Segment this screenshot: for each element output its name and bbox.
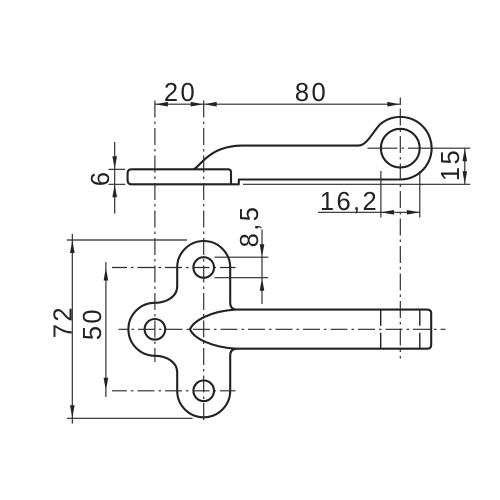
dimension 6: dimension line	[114, 142, 116, 214]
plan view: top mounting hole (d8.5)	[193, 257, 214, 278]
dimension 16,2: right extension line	[419, 171, 421, 218]
centerline: hinge eye horizontal	[368, 147, 435, 149]
svg-text:50: 50	[79, 307, 107, 340]
dimension 16,2 left arrow	[381, 210, 394, 215]
dimension 50: dimension line	[105, 262, 107, 397]
dimension 72 lower arrow	[70, 405, 75, 418]
plan view: hinge hole right edge line (upper segment)	[419, 310, 421, 326]
dimension 8,5: dimension line	[261, 230, 263, 305]
dimension line for 20 and 80	[155, 103, 400, 105]
svg-text:15: 15	[437, 148, 465, 181]
svg-text:80: 80	[295, 79, 328, 107]
centerline: right hole column (vertical)	[203, 98, 205, 425]
dimension 50 upper arrow	[104, 268, 109, 281]
dimension 72: dimension line	[71, 234, 73, 424]
dimension 8,5: bottom extension line	[215, 277, 269, 279]
dimension 8,5: top extension line	[215, 256, 269, 258]
dimension 8,5 lower arrow	[260, 278, 265, 291]
side view: base plate right edge	[193, 169, 231, 184]
plan view: bend crease of raised arm	[190, 310, 236, 349]
svg-text:8,5: 8,5	[236, 205, 264, 248]
plan view: middle mounting hole	[145, 319, 166, 340]
dimension 72: bottom extension line	[67, 417, 193, 419]
dimension 16,2: dimension line	[318, 211, 420, 213]
dimension 8,5 upper arrow	[260, 244, 265, 257]
plan view: hinge hole left edge line (lower segment)	[380, 333, 382, 349]
dimension 6 upper arrow	[112, 156, 117, 169]
dimension 72: top extension line	[67, 239, 187, 241]
dimension 20 left arrow	[155, 102, 168, 107]
plan view: part outline (three-lobed base with arm)	[128, 241, 431, 417]
dimension 16,2: left extension line	[380, 171, 382, 218]
dimension 72 upper arrow	[70, 240, 75, 253]
svg-text:20: 20	[164, 79, 197, 107]
svg-text:72: 72	[50, 305, 78, 338]
dimension 15 lower arrow	[463, 171, 468, 184]
centerline: left hole column (vertical)	[154, 98, 156, 363]
centerline: arm / middle hole horizontal	[119, 328, 446, 330]
dimension 15: top extension line (solid part)	[434, 147, 470, 149]
centerline: top hole horizontal (50 extension)	[112, 267, 236, 269]
plan view: bottom mounting hole	[193, 381, 214, 402]
dimension 15: dimension line	[464, 148, 466, 184]
dimension 15: bottom extension line	[243, 183, 470, 185]
centerline: hinge eye axis (vertical)	[399, 105, 401, 359]
centerline: bottom hole horizontal (50 extension)	[112, 390, 236, 392]
dimension 20 right arrow	[191, 102, 204, 107]
side view: part outline (base plate, raised arm, rolled hinge eye)	[128, 117, 432, 184]
dimension 6: extension line top	[109, 168, 126, 170]
plan view: hinge hole left edge line (upper segment)	[380, 310, 382, 326]
dimension 50 lower arrow	[104, 378, 109, 391]
svg-text:16,2: 16,2	[320, 188, 379, 216]
dimension 16,2 right arrow	[407, 210, 420, 215]
plan view: hinge hole right edge line (lower segment)	[419, 333, 421, 349]
dimension 6: extension line bottom	[109, 183, 126, 185]
dimension 80 left arrow	[204, 102, 217, 107]
extension tick above 80 arrow	[399, 98, 401, 106]
side view: hinge pin hole (d16.2)	[381, 129, 420, 168]
svg-text:6: 6	[87, 170, 115, 187]
dimension 6 lower arrow	[112, 184, 117, 197]
dimension 80 right arrow	[387, 102, 400, 107]
dimension 15 upper arrow	[463, 148, 468, 161]
